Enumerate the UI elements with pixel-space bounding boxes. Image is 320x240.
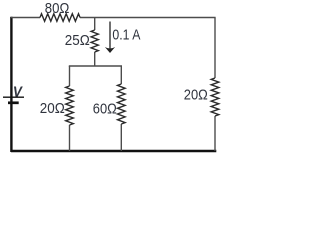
svg-text:80Ω: 80Ω — [45, 1, 70, 17]
svg-text:20Ω: 20Ω — [184, 88, 208, 104]
svg-text:60Ω: 60Ω — [93, 101, 117, 117]
svg-text:20Ω: 20Ω — [40, 101, 65, 117]
svg-text:0.1 A: 0.1 A — [112, 27, 140, 44]
svg-text:25Ω: 25Ω — [65, 33, 90, 49]
